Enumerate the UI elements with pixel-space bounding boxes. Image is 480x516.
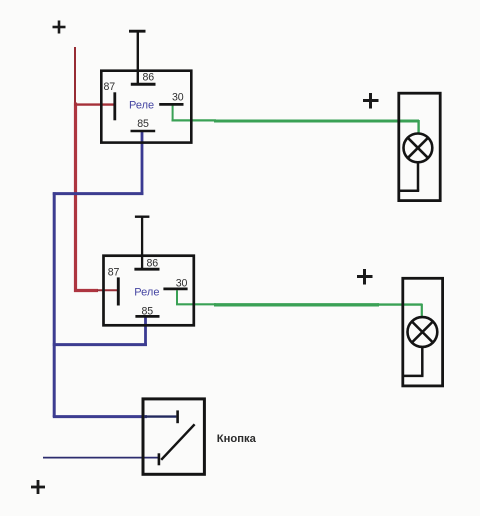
relay K1 pin 86 label [143, 72, 155, 84]
relay K1 pin 30 label [172, 91, 184, 103]
wire blue bus to button upper contact [53, 415, 177, 418]
lamp HL2 housing [403, 278, 443, 386]
svg-text:85: 85 [137, 118, 149, 130]
svg-text:30: 30 [176, 277, 188, 289]
relay K1 body [101, 71, 191, 143]
lamp HL1 bulb [404, 134, 433, 163]
relay K2 pin 85 terminal bar [135, 315, 159, 318]
svg-text:30: 30 [172, 91, 184, 103]
relay K1 pin 85 terminal bar [131, 130, 156, 133]
relay K2 name label [134, 286, 159, 298]
svg-text:87: 87 [104, 81, 116, 93]
wire red feed vertical from + [74, 47, 77, 292]
relay K2 pin 85 label [142, 306, 154, 318]
relay K1 pin 87 label [104, 81, 116, 93]
svg-text:Реле: Реле [129, 99, 154, 111]
wire green relay K2 pin 30 to lamp HL2 [176, 290, 423, 317]
svg-text:86: 86 [147, 258, 159, 270]
relay K1 pin 87 terminal bar [113, 92, 116, 120]
relay K2 coil top terminal (T symbol) [135, 216, 150, 269]
lamp HL2 ground wire to housing [404, 347, 424, 376]
relay K1 coil top terminal (T symbol) [129, 30, 146, 84]
relay K2 pin 30 label [176, 277, 188, 289]
relay K2 pin 86 label [147, 258, 159, 270]
button S1 lever [161, 424, 194, 460]
svg-text:Кнопка: Кнопка [217, 433, 257, 445]
relay K1 pin 86 terminal bar [131, 83, 156, 86]
relay K2 pin 87 terminal bar [117, 277, 120, 305]
wire blue from bottom + to button lower contact [43, 457, 159, 459]
button S1 lower contact bar [158, 453, 161, 465]
wire blue left bus vertical [53, 192, 56, 417]
wire green relay K1 pin 30 to lamp HL1 [172, 106, 420, 135]
button S1 upper contact bar [176, 410, 179, 423]
relay K1 pin 85 label [137, 118, 149, 130]
button S1 name label [217, 433, 257, 445]
wire blue horizontal K2-85 to left bus [53, 343, 147, 346]
node + (battery positive, bottom-left) [31, 480, 45, 494]
svg-text:85: 85 [142, 306, 154, 318]
wire blue from relay K2 pin 85 down [144, 316, 147, 346]
svg-text:87: 87 [108, 266, 120, 278]
wire blue horizontal K1-85 to left bus [53, 192, 144, 195]
lamp HL1 housing [399, 93, 440, 200]
node + (lamp HL1 supply) [363, 93, 379, 109]
wire red branch to relay K2 pin 87 [74, 289, 118, 292]
node + (battery positive, top-left) [53, 21, 66, 34]
relay K2 body [104, 256, 194, 326]
relay K1 pin 30 terminal bar [159, 103, 183, 106]
wire blue from relay K1 pin 85 down [141, 131, 144, 195]
lamp HL2 bulb [408, 317, 438, 347]
relay K2 pin 86 terminal bar [134, 268, 159, 271]
relay K1 name label [129, 99, 154, 111]
wire red branch to relay K1 pin 87 [74, 103, 115, 105]
svg-text:86: 86 [143, 72, 155, 84]
relay K2 pin 30 terminal bar [163, 287, 187, 290]
relay K2 pin 87 label [108, 266, 120, 278]
button S1 body [143, 399, 204, 474]
svg-text:Реле: Реле [134, 286, 159, 298]
lamp HL1 ground wire to housing [400, 162, 420, 190]
node + (lamp HL2 supply) [357, 269, 373, 285]
